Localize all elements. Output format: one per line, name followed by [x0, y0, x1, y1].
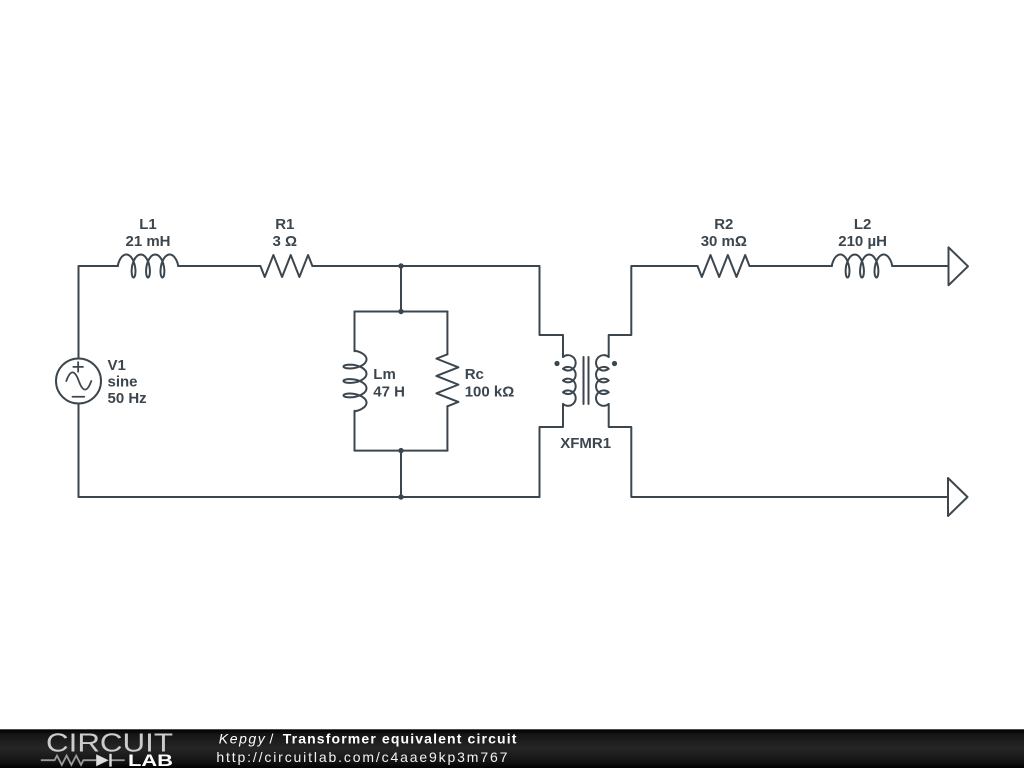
wire top-left rail: [79, 266, 119, 359]
svg-text:Kepgy/Transformer equivalent c: Kepgy/Transformer equivalent circuit: [219, 730, 517, 746]
svg-text:XFMR1: XFMR1: [560, 435, 611, 452]
svg-text:sine: sine: [108, 374, 138, 391]
transformer secondary phase dot: [612, 361, 617, 366]
svg-text:R1: R1: [275, 216, 294, 233]
node dot block bottom: [398, 448, 403, 453]
svg-text:3 Ω: 3 Ω: [273, 233, 298, 250]
svg-text:21 mH: 21 mH: [125, 233, 170, 250]
svg-text:50 Hz: 50 Hz: [108, 390, 147, 407]
logo resistor-diode art: [41, 756, 125, 765]
wire L2 to terminal: [892, 265, 948, 267]
svg-text:Rc: Rc: [465, 366, 484, 383]
transformer core: [584, 357, 589, 404]
transformer XFMR1 primary winding: [563, 355, 576, 406]
transformer XFMR1 secondary winding: [596, 355, 609, 406]
svg-text:L2: L2: [854, 216, 872, 233]
wire L1 to R1: [178, 265, 260, 267]
node dot block top: [398, 309, 403, 314]
resistor Rc: [436, 354, 458, 406]
wire transformer primary bottom lead: [540, 404, 564, 497]
transformer primary phase dot: [554, 361, 559, 366]
node dot top rail: [398, 263, 403, 268]
svg-text:R2: R2: [714, 216, 733, 233]
wire block bottom to bottom rail: [400, 451, 402, 497]
inductor L1: [118, 255, 179, 278]
svg-text:L1: L1: [139, 216, 157, 233]
footer bar: [0, 729, 1024, 768]
wire secondary top lead: [609, 266, 698, 357]
wire R2 to L2: [750, 265, 833, 267]
terminal flag top right: [949, 247, 969, 285]
wire Lm bottom lead: [354, 411, 356, 451]
wire secondary bottom lead: [609, 404, 948, 497]
resistor R1: [260, 255, 312, 277]
wire bottom-left rail: [79, 404, 540, 498]
wire parallel block top rail: [355, 311, 448, 313]
wire R1 to transformer primary top: [312, 266, 563, 357]
inductor Lm: [344, 351, 367, 412]
svg-text:Lm: Lm: [373, 366, 396, 383]
resistor R2: [698, 255, 750, 277]
svg-text:V1: V1: [108, 357, 126, 374]
wire Lm top lead: [354, 312, 356, 352]
wire Rc top lead: [446, 312, 448, 355]
wire parallel block bottom rail: [355, 450, 448, 452]
svg-text:100 kΩ: 100 kΩ: [465, 384, 515, 401]
svg-text:210 µH: 210 µH: [838, 233, 887, 250]
svg-text:47 H: 47 H: [373, 384, 405, 401]
node dot bottom rail: [398, 494, 403, 499]
svg-text:LAB: LAB: [128, 751, 173, 768]
wire Rc bottom lead: [446, 406, 448, 450]
svg-text:http://circuitlab.com/c4aae9kp: http://circuitlab.com/c4aae9kp3m767: [216, 749, 507, 765]
svg-text:30 mΩ: 30 mΩ: [701, 233, 747, 250]
voltage source V1: [56, 359, 101, 404]
inductor L2: [832, 255, 893, 278]
wire node A drop: [400, 266, 402, 312]
terminal flag bottom right: [948, 478, 968, 516]
